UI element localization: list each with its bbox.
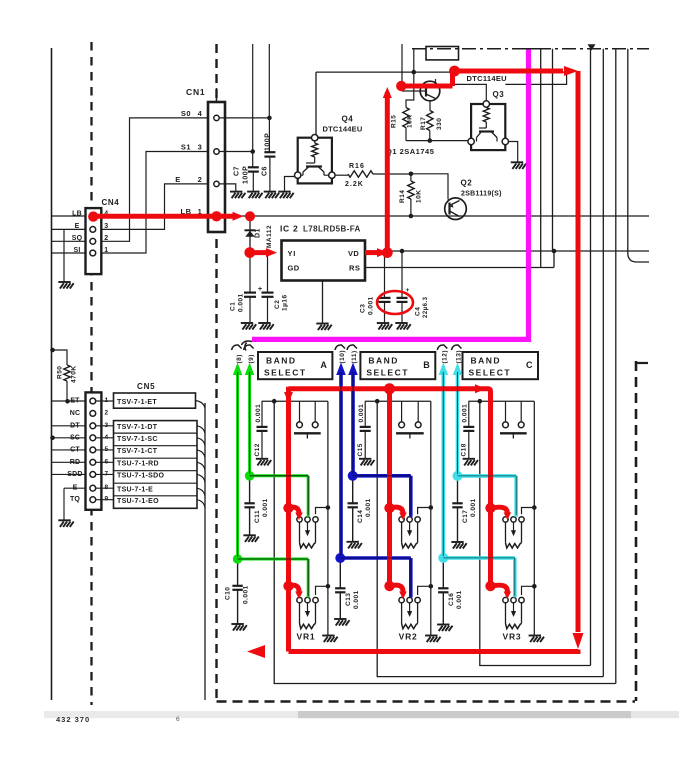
svg-text:22µ6.3: 22µ6.3 bbox=[423, 296, 429, 318]
svg-text:C13: C13 bbox=[345, 593, 352, 606]
svg-text:D1: D1 bbox=[255, 228, 262, 238]
wire magenta horizontal with corner bbox=[252, 336, 531, 339]
wire hook row y=462.3 bbox=[197, 462, 205, 470]
wire red band B vertical bbox=[387, 389, 392, 586]
TSV harness label box row1 bbox=[114, 393, 196, 408]
svg-text:DTC114EU: DTC114EU bbox=[467, 74, 507, 83]
wire CN5 row y=462.3 bbox=[52, 461, 86, 463]
wire CN5 row y=474.4 bbox=[52, 473, 86, 475]
wire cyan trace band C pin(12): arrow down bbox=[441, 370, 445, 558]
wire crimp hook at (8) bbox=[232, 345, 242, 350]
wire blue horizontal to mid pot bbox=[353, 476, 411, 517]
band select box B bbox=[360, 352, 435, 379]
capacitor C14 0.001 bbox=[352, 476, 354, 503]
wire top dash-dot boundary bbox=[412, 48, 649, 50]
svg-text:CN1: CN1 bbox=[186, 87, 205, 97]
wire Q1 base riser bbox=[401, 44, 403, 86]
svg-text:2: 2 bbox=[104, 409, 108, 416]
wire stray dash near right border bbox=[635, 362, 648, 364]
wire hook row y=449.9 bbox=[197, 450, 205, 458]
wire magenta highlighted net vertical bbox=[526, 49, 531, 337]
svg-text:S0: S0 bbox=[181, 109, 191, 118]
svg-text:0.001: 0.001 bbox=[470, 498, 477, 517]
svg-text:2: 2 bbox=[104, 235, 108, 242]
node VD/RS junction bbox=[552, 249, 557, 254]
ground bbox=[231, 624, 246, 631]
wire RS net corner up to VD line bbox=[553, 251, 555, 268]
ground bbox=[359, 459, 374, 466]
potentiometer VR3 bbox=[503, 597, 508, 602]
svg-text:TSV-7-1-CT: TSV-7-1-CT bbox=[117, 448, 158, 455]
node red VD junction bbox=[382, 247, 393, 258]
svg-text:TSU-7-1-E: TSU-7-1-E bbox=[117, 486, 153, 493]
connector CN4 bbox=[86, 208, 102, 274]
svg-text:C18: C18 bbox=[461, 443, 468, 456]
Q4 internal transistor symbol bbox=[314, 157, 316, 163]
svg-text:C14: C14 bbox=[357, 510, 364, 523]
svg-text:4: 4 bbox=[198, 109, 203, 118]
capacitor C3 0.001 bbox=[384, 253, 386, 298]
wire black under red: Q1 emitter riser bbox=[453, 71, 455, 84]
capacitor C10 0.001 bbox=[237, 559, 239, 586]
wire green horizontal to mid pot bbox=[250, 476, 309, 517]
ground bbox=[258, 323, 273, 330]
wire Q3 right pin to ground bbox=[509, 142, 518, 163]
ground bbox=[322, 636, 337, 643]
ground bbox=[451, 542, 466, 549]
svg-text:SELECT: SELECT bbox=[469, 368, 512, 378]
wire green horizontal to VR1 bbox=[238, 559, 309, 597]
wire big dashed boundary right side bbox=[635, 361, 638, 701]
svg-text:C12: C12 bbox=[254, 443, 261, 456]
band A top switch contacts bbox=[299, 401, 301, 421]
junction mark top of right bus bbox=[588, 44, 596, 50]
svg-text:(8): (8) bbox=[236, 354, 243, 363]
wire top rail y=72 bbox=[316, 71, 567, 73]
wire CN1 S1 to junction bbox=[220, 151, 253, 153]
ground bbox=[278, 192, 293, 199]
svg-text:TSU-7-1-RD: TSU-7-1-RD bbox=[117, 461, 159, 468]
node green junction (9) bbox=[245, 471, 255, 481]
svg-text:Q4: Q4 bbox=[342, 115, 354, 124]
capacitor C6 bbox=[268, 118, 270, 152]
transistor Q4 DTC144EU digital transistor box bbox=[298, 138, 332, 184]
node blue junction (10) bbox=[335, 553, 345, 563]
TSV harness label box rows 3-9 bbox=[114, 421, 198, 509]
wire red band A vertical bbox=[286, 387, 291, 652]
svg-text:Q2: Q2 bbox=[461, 179, 473, 188]
wire green trace band A pin(9): arrow down to mid pot bbox=[248, 370, 251, 476]
band C middle preset pot bbox=[503, 517, 508, 522]
wire red hook band A vr bbox=[283, 581, 293, 591]
svg-text:VR1: VR1 bbox=[297, 632, 316, 642]
svg-text:R17: R17 bbox=[420, 117, 427, 130]
wire crimp hook at (11) bbox=[347, 345, 357, 350]
wire red band bus horizontal bbox=[289, 386, 489, 391]
capacitor C13 0.001 bbox=[339, 558, 341, 588]
wire blue trace band B pin(10): arrow down bbox=[339, 370, 343, 558]
band A top rail bbox=[262, 400, 328, 402]
wire band A common wrap: down, across bottom, up right bbox=[274, 401, 616, 683]
wire hook row y=474.4 bbox=[197, 474, 205, 482]
capacitor C4 22u6.3 electrolytic bbox=[401, 251, 403, 298]
ground bbox=[316, 324, 331, 331]
ground bbox=[58, 520, 73, 527]
node band B rail/wrap junction bbox=[375, 399, 380, 404]
wire band C middle pot right terminal to common bbox=[522, 508, 535, 515]
wire C7 riser to top edge bbox=[252, 44, 254, 152]
node R16/R14/Q2 base bbox=[409, 172, 414, 177]
svg-text:BAND: BAND bbox=[266, 356, 297, 366]
svg-text:+: + bbox=[258, 286, 263, 293]
svg-text:Q3: Q3 bbox=[493, 90, 505, 99]
node R50 bottom on ET wire bbox=[65, 399, 70, 404]
node band C mid tap bbox=[532, 505, 537, 510]
svg-text:YI: YI bbox=[288, 249, 297, 258]
wire CN4 SI row to left bus bbox=[52, 252, 86, 254]
wire CN4 E row to left bus and down to ground bbox=[52, 228, 86, 230]
wire corner down to Q4 top bbox=[315, 72, 317, 135]
svg-text:BAND: BAND bbox=[471, 356, 502, 366]
node R14 bottom on LB net bbox=[409, 214, 414, 219]
svg-text:A: A bbox=[320, 360, 327, 370]
svg-text:C15: C15 bbox=[357, 443, 364, 456]
wire black centerlines under highlights bbox=[238, 559, 309, 596]
wire VR1 right terminal to common bbox=[316, 586, 328, 595]
svg-text:TSV-7-1-SC: TSV-7-1-SC bbox=[117, 436, 158, 443]
wire band A middle pot right terminal to common bbox=[316, 508, 328, 515]
node green junction (8) bbox=[233, 554, 243, 564]
ground bbox=[529, 636, 544, 643]
svg-text:470K: 470K bbox=[71, 365, 78, 383]
capacitor C17 0.001 bbox=[457, 476, 459, 503]
svg-text:0.001: 0.001 bbox=[358, 404, 365, 423]
svg-text:0.001: 0.001 bbox=[456, 590, 463, 609]
svg-text:C6: C6 bbox=[262, 166, 269, 176]
red ellipse annotation around C3/C4 bbox=[377, 291, 413, 314]
node red Q1 base junction bbox=[396, 81, 406, 91]
svg-text:0.001: 0.001 bbox=[462, 404, 469, 423]
svg-text:C17: C17 bbox=[462, 510, 469, 523]
band B top rail bbox=[365, 400, 431, 402]
wire red VD stub bbox=[365, 250, 378, 255]
svg-text:0.001: 0.001 bbox=[365, 498, 372, 517]
svg-text:R16: R16 bbox=[349, 163, 365, 170]
wire CN5 row y=425.8 bbox=[52, 425, 86, 427]
wire S0 left to CN4 SQ bbox=[102, 118, 209, 241]
Q4 internal resistor bbox=[314, 141, 316, 143]
svg-text:TSU-7-1-EO: TSU-7-1-EO bbox=[117, 498, 159, 505]
node red band B branch bbox=[384, 383, 395, 394]
wire red bottom return bbox=[289, 650, 579, 652]
svg-text:432 370: 432 370 bbox=[56, 715, 90, 724]
capacitor C11 0.001 bbox=[249, 476, 251, 503]
potentiometer VR1 bbox=[297, 597, 302, 602]
wire right bus A (from top boundary down to RS line) bbox=[540, 49, 542, 268]
svg-text:C3: C3 bbox=[360, 304, 367, 313]
node C2 tap on YI line bbox=[265, 250, 270, 255]
capacitor C12 0.001 bbox=[261, 401, 263, 426]
svg-text:DTC144EU: DTC144EU bbox=[323, 125, 363, 134]
wire LB net long horizontal bbox=[52, 215, 650, 217]
svg-text:3: 3 bbox=[198, 143, 203, 152]
op-amp U IC2 L78LRD5B-FA box bbox=[282, 241, 366, 281]
svg-text:NC: NC bbox=[70, 410, 81, 417]
scan artifact strips (decorative) bbox=[44, 711, 298, 718]
svg-text:(11): (11) bbox=[351, 350, 358, 363]
svg-text:CN4: CN4 bbox=[102, 198, 120, 207]
ground bbox=[395, 323, 410, 330]
svg-text:0.001: 0.001 bbox=[243, 585, 250, 604]
node red CN1 pin1 bbox=[211, 211, 221, 221]
svg-text:L78LRD5B-FA: L78LRD5B-FA bbox=[303, 225, 361, 234]
wire band B common wrap bbox=[377, 401, 603, 677]
svg-text:C11: C11 bbox=[254, 510, 261, 523]
connector CN1 bbox=[208, 102, 225, 232]
svg-text:0.001: 0.001 bbox=[255, 404, 262, 423]
resistor R16 2.2K bbox=[335, 174, 348, 176]
wire CN5 row y=401.0 bbox=[52, 400, 86, 402]
wire red band C corner bbox=[475, 384, 486, 393]
ground bbox=[437, 625, 452, 632]
ground bbox=[230, 192, 245, 199]
wire VR3 right terminal to common bbox=[522, 586, 535, 595]
wire Q3 top pin up/left bbox=[454, 84, 486, 100]
wire hook row y=400.5 bbox=[196, 401, 206, 409]
wire VD output net horizontal bbox=[365, 250, 649, 252]
ground bbox=[241, 323, 256, 330]
svg-text:R15: R15 bbox=[391, 115, 398, 128]
wire IC2 GD lead down to ground bbox=[322, 281, 324, 324]
wire red hook band B mid bbox=[384, 503, 394, 513]
svg-text:C2: C2 bbox=[274, 300, 281, 309]
wire red hook band C vr bbox=[485, 581, 495, 591]
ground bbox=[425, 636, 440, 643]
component box at top edge bbox=[426, 47, 459, 60]
wire cyan trace band C pin(13): arrow down bbox=[456, 370, 460, 476]
wire band B middle pot right terminal to common bbox=[418, 508, 431, 515]
band C top rail bbox=[469, 400, 535, 402]
capacitor C1 0.001 bbox=[244, 292, 256, 294]
band B top switch contacts bbox=[401, 401, 403, 421]
wire Q4 emitter to its ground bbox=[285, 177, 298, 192]
wire corner at x566 bbox=[505, 72, 566, 84]
wire big dashed boundary left side (through CN1) bbox=[215, 44, 217, 700]
wire right bus B (top boundary down, joins VD/RS corner) bbox=[552, 49, 554, 251]
capacitor C2 1u16 electrolytic bbox=[267, 253, 269, 293]
svg-text:Q1 2SA1745: Q1 2SA1745 bbox=[386, 147, 434, 156]
svg-text:C4: C4 bbox=[415, 307, 422, 316]
node band A mid tap bbox=[326, 505, 331, 510]
wire red hook band B vr bbox=[384, 581, 394, 591]
svg-text:IC 2: IC 2 bbox=[280, 224, 298, 234]
ground bbox=[347, 542, 362, 549]
band A common vertical bbox=[327, 401, 329, 635]
band A top switch bar bbox=[294, 432, 321, 434]
svg-text:10K: 10K bbox=[407, 115, 414, 128]
wire crimp hook at magenta end bbox=[242, 341, 253, 351]
wire red D1 to YI with arrow bbox=[250, 250, 266, 255]
svg-text:10K: 10K bbox=[416, 190, 423, 203]
svg-text:R14: R14 bbox=[399, 190, 406, 203]
node band A vr tap bbox=[326, 584, 331, 589]
wire crimp hook at (9) bbox=[244, 345, 254, 350]
node band B mid tap bbox=[429, 505, 434, 510]
wire right wrap bus for band B bbox=[602, 49, 604, 677]
node S0/C6 junction bbox=[267, 116, 272, 121]
wire right wrap bus for band C: up right side bbox=[590, 49, 592, 666]
ground bbox=[463, 459, 478, 466]
svg-text:S1: S1 bbox=[181, 143, 191, 152]
node VD line junction at C4 bbox=[400, 249, 405, 254]
wire left page border bus bbox=[51, 48, 53, 700]
Q3 internal transistor symbol bbox=[485, 122, 487, 128]
node band B vr tap bbox=[429, 584, 434, 589]
svg-text:C16: C16 bbox=[448, 593, 455, 606]
wire top boundary dash over magenta bbox=[521, 48, 539, 50]
wire CN1 E pin stub to ground bbox=[220, 184, 236, 191]
node red D1 top bbox=[245, 211, 255, 221]
capacitor C7 bbox=[252, 152, 254, 168]
svg-text:(13): (13) bbox=[456, 350, 463, 364]
wire RS net horizontal bbox=[365, 267, 554, 269]
svg-text:TSV-7-1-DT: TSV-7-1-DT bbox=[117, 424, 158, 431]
svg-text:(12): (12) bbox=[442, 350, 449, 364]
ground bbox=[511, 162, 526, 169]
wire C6 riser to top edge bbox=[268, 44, 270, 118]
band select box C bbox=[463, 352, 539, 379]
wire green trace band A pin(8): arrow down to VR1 wiper bbox=[236, 370, 239, 559]
band C top switch bar bbox=[500, 432, 527, 434]
svg-text:C1: C1 bbox=[230, 302, 237, 311]
wire red right-side vertical bbox=[576, 71, 581, 632]
wire CN5 row y=437.8 bbox=[52, 437, 86, 439]
wire blue horizontal to VR2 bbox=[340, 558, 411, 597]
svg-text:3: 3 bbox=[104, 223, 108, 230]
transistor Q3 DTC114EU digital transistor box bbox=[471, 104, 505, 150]
wire cyan horizontal to mid pot bbox=[458, 476, 517, 517]
svg-text:C7: C7 bbox=[234, 166, 241, 176]
wire CN5 pin1 to box bbox=[96, 400, 114, 402]
svg-text:R50: R50 bbox=[57, 366, 64, 379]
wire inner dashed border (left, through CN4/CN5) bbox=[90, 42, 92, 705]
svg-text:LB: LB bbox=[72, 211, 82, 218]
wire red vertical VD up to Q1 bbox=[385, 92, 390, 253]
wire CN5 row y=449.9 bbox=[52, 449, 86, 451]
connector CN5 bbox=[86, 392, 102, 509]
node S1/C7 junction bbox=[250, 149, 255, 154]
wire riser from top boundary to node bbox=[413, 49, 415, 72]
node band C vr tap bbox=[532, 584, 537, 589]
svg-text:C: C bbox=[526, 360, 533, 370]
wire right wrap bus for band A bbox=[615, 49, 617, 684]
wire CN5 E row to ground bbox=[64, 488, 86, 520]
band B middle preset pot bbox=[399, 517, 404, 522]
transistor Q1 2SA1745 bbox=[420, 81, 440, 101]
wire hook row y=488.2 bbox=[197, 488, 205, 496]
svg-text:6: 6 bbox=[176, 716, 180, 723]
node blue junction (11) bbox=[348, 471, 358, 481]
wire blue trace band B pin(11): arrow down bbox=[351, 370, 355, 476]
svg-text:0.001: 0.001 bbox=[368, 296, 375, 315]
wire R15/R17 bottoms to Q3 left pin bbox=[406, 140, 468, 142]
wire big dashed boundary bottom bbox=[217, 700, 636, 703]
node cyan junction (13) bbox=[453, 471, 463, 481]
band A middle preset pot bbox=[297, 517, 302, 522]
svg-text:BAND: BAND bbox=[368, 356, 399, 366]
ground bbox=[264, 192, 279, 199]
svg-text:0.001: 0.001 bbox=[262, 498, 269, 517]
capacitor C15 0.001 bbox=[364, 401, 366, 426]
band select box A bbox=[258, 352, 332, 379]
svg-text:SELECT: SELECT bbox=[366, 368, 409, 378]
band B top switch bar bbox=[396, 432, 424, 434]
potentiometer VR2 bbox=[399, 597, 404, 602]
resistor R14 10K (vertical) bbox=[410, 174, 412, 181]
svg-text:0.001: 0.001 bbox=[238, 293, 245, 312]
band B common vertical bbox=[430, 401, 432, 635]
ground bbox=[256, 459, 271, 466]
svg-text:CN5: CN5 bbox=[137, 382, 155, 391]
svg-text:VR3: VR3 bbox=[503, 632, 522, 642]
wire band C common wrap bbox=[480, 400, 591, 665]
wire hook row y=425.8 bbox=[197, 426, 205, 434]
svg-text:TQ: TQ bbox=[70, 496, 80, 503]
ground bbox=[247, 192, 262, 199]
wire S1 left to CN4 SI bbox=[102, 152, 209, 254]
wire right bus with J-hook terminator bbox=[628, 49, 649, 262]
band C top switch contacts bbox=[505, 401, 507, 421]
svg-text:100P: 100P bbox=[243, 166, 250, 184]
svg-text:1µ16: 1µ16 bbox=[282, 294, 289, 311]
node cyan junction (12) bbox=[438, 553, 448, 563]
svg-text:2.2K: 2.2K bbox=[345, 181, 364, 188]
capacitor C16 0.001 bbox=[442, 558, 444, 588]
wire crimp hook at (10) bbox=[335, 345, 345, 350]
svg-text:C10: C10 bbox=[225, 587, 232, 600]
svg-text:VR2: VR2 bbox=[399, 632, 418, 642]
resistor R15 10K (vertical) bbox=[406, 72, 414, 107]
svg-text:2SB1119(S): 2SB1119(S) bbox=[461, 191, 502, 198]
node band C rail/wrap junction bbox=[478, 399, 483, 404]
wire red hook band C mid bbox=[485, 503, 495, 513]
ground bbox=[243, 535, 258, 542]
wire red hook band A mid bbox=[283, 503, 293, 513]
wire red LB trace CN4 to D1 bbox=[93, 214, 233, 219]
svg-text:MA112: MA112 bbox=[266, 225, 273, 248]
svg-text:330: 330 bbox=[436, 118, 443, 130]
wire E left to CN4 E bbox=[102, 184, 209, 230]
svg-text:SELECT: SELECT bbox=[264, 368, 307, 378]
svg-text:100P: 100P bbox=[265, 133, 272, 151]
wire CN4 SQ row to left bus bbox=[52, 240, 86, 242]
svg-text:(9): (9) bbox=[248, 354, 255, 363]
wire crimp hook at (13) bbox=[452, 345, 462, 350]
ground bbox=[58, 282, 73, 289]
wire crimp hook at (12) bbox=[437, 345, 447, 350]
svg-text:E: E bbox=[175, 175, 181, 184]
wire red Q1 base to emitter jog bbox=[401, 71, 563, 86]
Q3 internal resistor bbox=[483, 108, 489, 123]
wire CN1 S0 to junction and C6 bbox=[220, 117, 270, 119]
wire stub above CN1 bbox=[216, 88, 218, 102]
svg-text:TSU-7-1-SDO: TSU-7-1-SDO bbox=[117, 473, 165, 480]
node red D1 bottom bbox=[244, 247, 255, 258]
ground bbox=[377, 323, 392, 330]
resistor R17 330 (vertical) bbox=[427, 110, 433, 130]
resistor R50 470K bbox=[52, 350, 68, 365]
wire VR2 right terminal to common bbox=[418, 586, 431, 595]
